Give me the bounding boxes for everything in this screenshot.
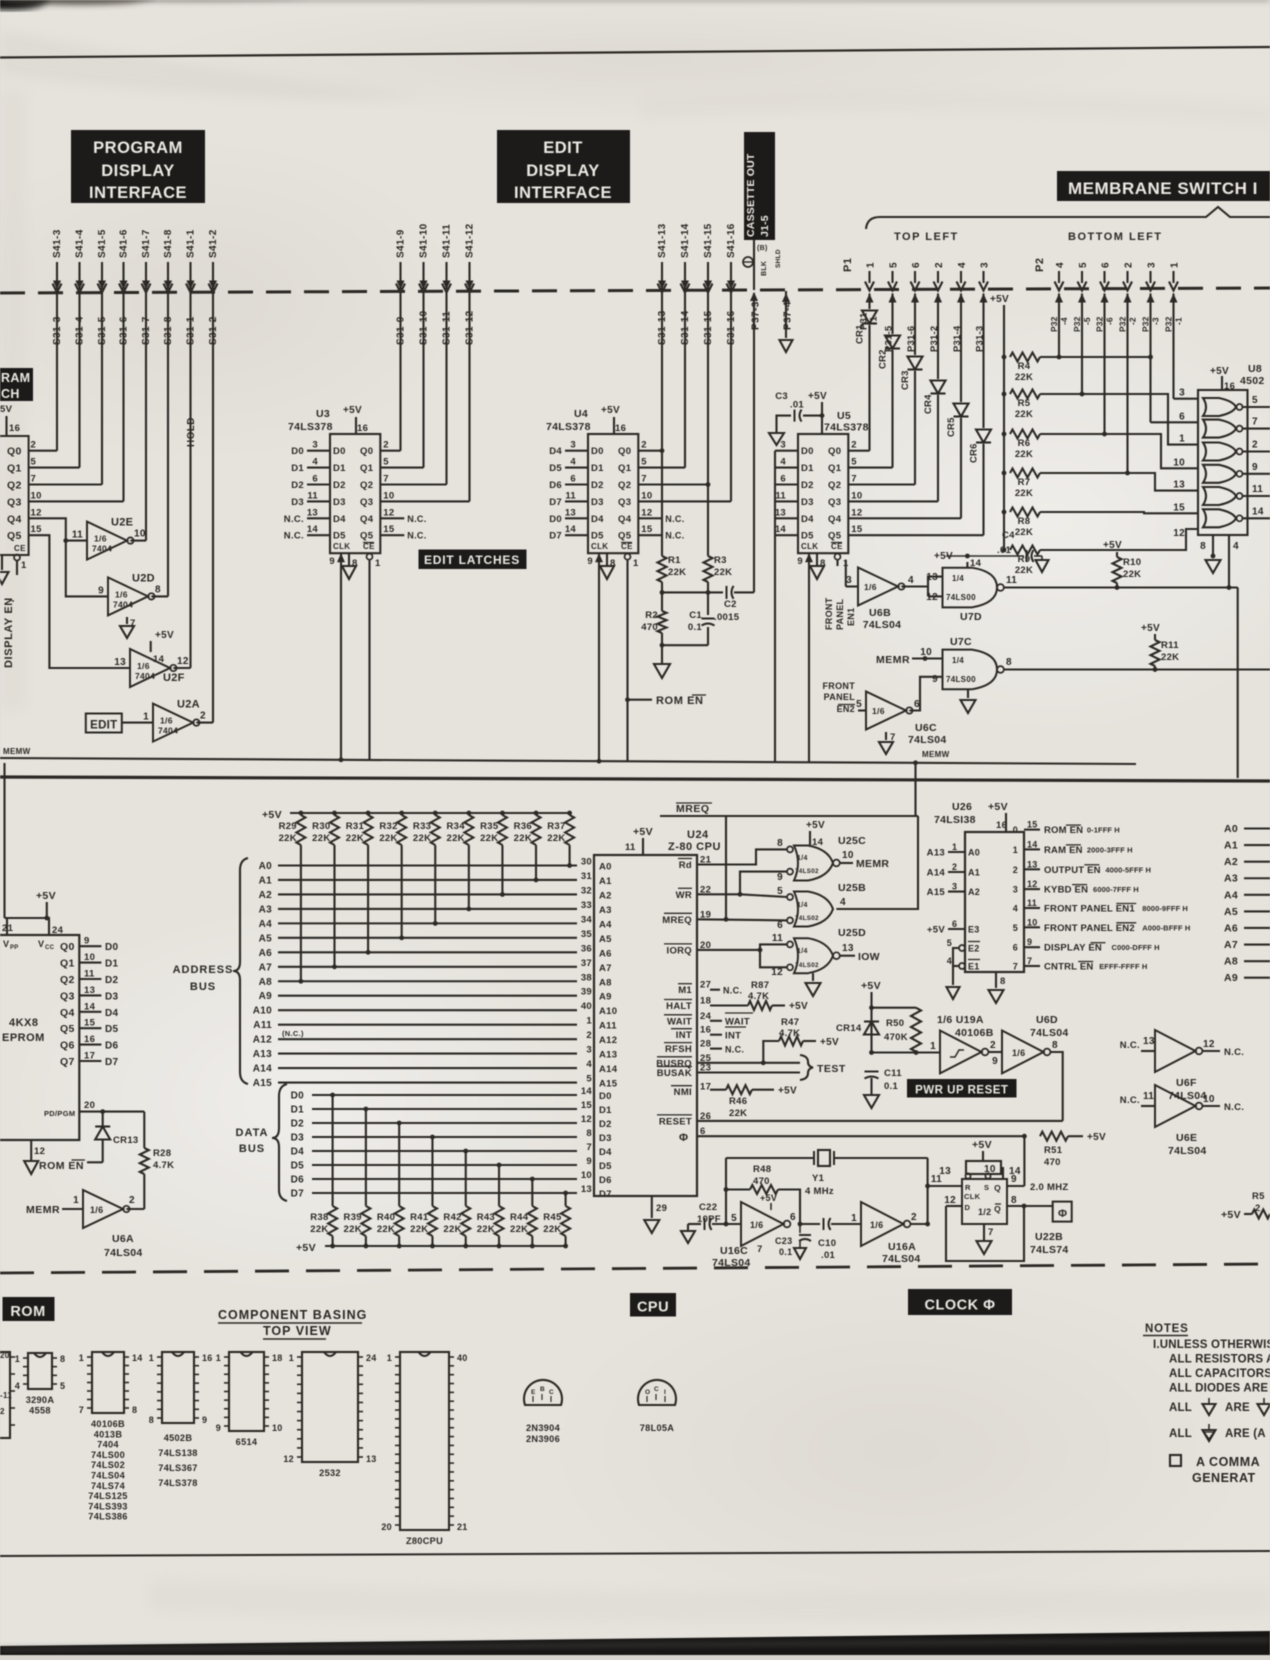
svg-text:7404: 7404	[92, 544, 112, 554]
resistor R8 22K	[1002, 510, 1007, 515]
svg-text:13: 13	[1143, 1036, 1155, 1047]
wire BUSRQ	[697, 1062, 800, 1064]
svg-text:8: 8	[60, 1354, 65, 1364]
svg-text:+5V: +5V	[1087, 1132, 1106, 1143]
svg-text:Q5: Q5	[618, 531, 632, 542]
svg-text:D5: D5	[801, 531, 814, 542]
svg-text:A7: A7	[259, 962, 273, 973]
svg-text:7: 7	[79, 1405, 84, 1415]
svg-text:12: 12	[1027, 879, 1038, 889]
svg-text:R40: R40	[377, 1212, 395, 1223]
svg-text:14: 14	[132, 1353, 143, 1363]
svg-text:5: 5	[856, 699, 862, 710]
svg-text:P32: P32	[1118, 316, 1128, 332]
pin D3 (11)	[775, 500, 798, 502]
svg-text:Y1: Y1	[812, 1173, 825, 1184]
svg-text:+5V: +5V	[820, 1037, 839, 1048]
svg-text:8: 8	[155, 584, 161, 595]
svg-text:22K: 22K	[413, 833, 431, 844]
node P32-4	[1055, 294, 1063, 303]
node P32-5	[1078, 294, 1086, 303]
svg-text:1: 1	[1170, 262, 1181, 268]
EDIT input box	[86, 714, 122, 733]
svg-text:U25B: U25B	[838, 882, 866, 894]
svg-text:1/6 U19A: 1/6 U19A	[937, 1014, 984, 1026]
svg-text:N.C.: N.C.	[725, 1045, 744, 1055]
svg-text:CNTRL EN: CNTRL EN	[1044, 962, 1093, 973]
svg-text:2: 2	[1252, 440, 1258, 451]
svg-text:22K: 22K	[312, 833, 330, 844]
svg-text:74LS04: 74LS04	[104, 1247, 143, 1259]
svg-text:7: 7	[1027, 956, 1032, 966]
resistor R1 22K	[660, 448, 665, 453]
svg-text:A COMMA: A COMMA	[1196, 1455, 1260, 1469]
svg-text:7: 7	[586, 1142, 592, 1153]
svg-text:D5: D5	[291, 1161, 305, 1172]
svg-text:4: 4	[957, 262, 968, 268]
pin D3 (11)	[307, 500, 330, 502]
svg-text:C2: C2	[724, 599, 737, 610]
svg-text:Q4: Q4	[60, 1007, 75, 1019]
svg-text:U4: U4	[574, 408, 588, 420]
capacitor C11 0.1	[865, 1071, 879, 1073]
pin D1 (4)	[307, 467, 330, 469]
resistor R28 4.7K	[140, 1148, 149, 1174]
svg-text:5: 5	[641, 457, 647, 468]
svg-text:22K: 22K	[668, 567, 686, 578]
svg-text:N.C.: N.C.	[407, 531, 426, 541]
svg-text:5: 5	[1078, 262, 1089, 268]
svg-text:N.C.: N.C.	[1224, 1102, 1244, 1113]
svg-text:.01: .01	[790, 400, 805, 411]
svg-text:A11: A11	[599, 1021, 617, 1032]
svg-text:+5V: +5V	[296, 1242, 316, 1254]
svg-text:Φ: Φ	[679, 1132, 688, 1144]
svg-text:8: 8	[1006, 657, 1012, 668]
wire R4 row to U8 pin6	[1040, 356, 1151, 358]
svg-text:13: 13	[1027, 859, 1038, 869]
resistor R3 22K	[706, 482, 711, 487]
svg-text:15: 15	[1173, 502, 1185, 513]
svg-text:15: 15	[84, 1018, 96, 1029]
svg-text:2: 2	[952, 862, 957, 872]
svg-text:74LS393: 74LS393	[88, 1501, 127, 1511]
svg-text:A8: A8	[259, 977, 273, 988]
svg-text:R11: R11	[1161, 640, 1179, 651]
svg-text:11: 11	[625, 842, 636, 853]
junction to U19A	[869, 1050, 874, 1055]
svg-text:2: 2	[851, 440, 857, 451]
data bus brace	[272, 1084, 287, 1201]
svg-text:COMPONENT BASING: COMPONENT BASING	[218, 1308, 367, 1322]
svg-text:B: B	[540, 1386, 545, 1393]
svg-text:74LS00: 74LS00	[946, 593, 976, 602]
svg-text:22K: 22K	[379, 833, 397, 844]
svg-text:BUS: BUS	[239, 1143, 265, 1155]
svg-text:OUTPUT EN: OUTPUT EN	[1044, 865, 1101, 876]
svg-text:22K: 22K	[1015, 449, 1033, 460]
svg-text:ALL: ALL	[1169, 1428, 1192, 1440]
svg-text:D7: D7	[549, 531, 562, 542]
svg-text:P32: P32	[1141, 316, 1151, 332]
svg-text:CLOCK Φ: CLOCK Φ	[925, 1298, 996, 1314]
svg-text:13: 13	[114, 657, 126, 668]
svg-text:U16C: U16C	[720, 1245, 748, 1257]
svg-text:11: 11	[1006, 575, 1017, 586]
svg-text:4: 4	[1013, 904, 1018, 914]
svg-text:11: 11	[775, 490, 786, 501]
svg-text:N.C.: N.C.	[723, 986, 742, 996]
U7C ground	[967, 689, 969, 698]
svg-text:N.C.: N.C.	[665, 514, 684, 524]
svg-text:R7: R7	[1018, 477, 1031, 488]
wire Q4 to U2E/U2D	[29, 518, 87, 540]
svg-text:D1: D1	[801, 463, 814, 474]
pin D2 (6)	[565, 483, 588, 485]
svg-text:ARE (A: ARE (A	[1225, 1428, 1266, 1440]
svg-text:74LS04: 74LS04	[712, 1257, 751, 1269]
svg-text:40: 40	[457, 1353, 468, 1363]
diode CR4	[937, 294, 939, 380]
pin D0 (3)	[565, 450, 588, 452]
gate U8 element 3	[1203, 443, 1236, 461]
svg-text:2: 2	[911, 1212, 917, 1223]
svg-text:U2A: U2A	[177, 699, 200, 711]
svg-text:12: 12	[283, 1454, 294, 1464]
svg-text:U22B: U22B	[1035, 1231, 1063, 1243]
svg-text:74LS378: 74LS378	[288, 421, 333, 433]
label box CPU	[630, 1293, 676, 1317]
svg-text:(N.C.): (N.C.)	[282, 1029, 304, 1038]
svg-text:74LS02: 74LS02	[795, 868, 819, 875]
svg-text:12: 12	[177, 656, 189, 667]
svg-text:A13: A13	[253, 1049, 272, 1060]
svg-text:1: 1	[851, 1213, 857, 1224]
svg-text:4: 4	[908, 575, 914, 586]
pin D4 (13)	[775, 517, 798, 519]
resistor R40 22K	[397, 1244, 402, 1249]
svg-text:A9: A9	[259, 991, 273, 1002]
gate U8 element 1	[1203, 398, 1236, 416]
svg-text:11: 11	[307, 490, 318, 501]
svg-text:D2: D2	[333, 480, 346, 491]
svg-text:16: 16	[357, 423, 368, 434]
svg-text:EDIT LATCHES: EDIT LATCHES	[424, 553, 520, 567]
svg-text:2N3906: 2N3906	[526, 1434, 560, 1444]
section divider thick line	[0, 777, 1270, 781]
wire CR5 to U5 output	[960, 418, 962, 518]
svg-text:74LS378: 74LS378	[546, 421, 591, 433]
svg-text:A5: A5	[1224, 906, 1238, 918]
svg-text:7404: 7404	[158, 726, 178, 736]
svg-text:Q5: Q5	[60, 1023, 75, 1035]
svg-text:13: 13	[1173, 480, 1185, 491]
pin E1 (4) U26	[959, 963, 965, 969]
svg-text:A15: A15	[599, 1079, 618, 1090]
svg-text:36: 36	[581, 943, 592, 954]
svg-text:1: 1	[21, 560, 27, 571]
EDIT LATCHES label box	[419, 550, 527, 570]
resistor R30 22K	[332, 811, 337, 816]
svg-text:Q4: Q4	[360, 514, 374, 525]
svg-text:10: 10	[851, 490, 862, 501]
svg-text:S41-11: S41-11	[442, 224, 453, 258]
pin D2 (6)	[307, 483, 330, 485]
svg-text:D5: D5	[333, 531, 346, 542]
node P37-3	[753, 240, 755, 290]
pin D4 (13)	[307, 517, 330, 519]
diode CR1	[868, 294, 870, 310]
wire R8 row to U8 pin15	[1040, 512, 1198, 513]
svg-text:14: 14	[84, 1001, 96, 1012]
resistor R9 22K	[1002, 548, 1007, 553]
svg-text:A3: A3	[259, 904, 273, 915]
svg-text:74LSI38: 74LSI38	[934, 814, 976, 826]
svg-text:S41-3: S41-3	[52, 229, 63, 258]
svg-text:HOLD: HOLD	[186, 417, 197, 447]
svg-text:D2: D2	[801, 480, 814, 491]
svg-text:470K: 470K	[884, 1032, 908, 1043]
svg-text:74LS74: 74LS74	[1030, 1244, 1069, 1256]
resistor R33 22K	[433, 811, 438, 816]
svg-text:I: I	[664, 1389, 666, 1396]
svg-text:Q3: Q3	[7, 496, 22, 508]
U1 output wires to S31 columns	[29, 450, 57, 452]
label box PROGRAM DISPLAY INTERFACE	[71, 130, 205, 203]
junction row with C2	[661, 582, 663, 611]
svg-text:BOTTOM LEFT: BOTTOM LEFT	[1068, 231, 1163, 243]
svg-text:14: 14	[970, 558, 982, 569]
svg-text:6: 6	[1101, 262, 1112, 268]
svg-text:D5: D5	[599, 1161, 612, 1172]
svg-text:11: 11	[565, 490, 576, 501]
svg-text:+5V: +5V	[155, 630, 174, 641]
svg-text:S41-16: S41-16	[726, 223, 737, 258]
svg-text:5: 5	[889, 262, 900, 268]
svg-text:E3: E3	[968, 925, 980, 935]
svg-text:24: 24	[700, 1011, 712, 1022]
svg-text:10: 10	[641, 490, 652, 501]
node P31-1	[866, 294, 874, 303]
wire MREQ to U25B input 6	[697, 919, 787, 920]
resistor R43 22K	[497, 1244, 502, 1249]
resistor R2 470	[658, 611, 667, 633]
svg-text:R41: R41	[410, 1212, 429, 1223]
svg-text:8: 8	[149, 1415, 154, 1425]
wire CR1 to U5 output	[868, 325, 870, 451]
svg-text:R43: R43	[477, 1212, 495, 1223]
svg-text:P32: P32	[1164, 316, 1174, 332]
svg-text:D0: D0	[801, 446, 814, 457]
svg-text:Q5: Q5	[7, 530, 22, 542]
package 18-pin 6514	[229, 1352, 264, 1431]
svg-text:D4: D4	[591, 514, 604, 525]
svg-text:4: 4	[947, 956, 952, 966]
svg-text:15: 15	[641, 524, 653, 535]
svg-text:R28: R28	[153, 1148, 171, 1159]
svg-text:16: 16	[9, 423, 20, 434]
svg-text:13: 13	[366, 1454, 377, 1464]
svg-text:D0: D0	[105, 942, 119, 953]
svg-text:74LS04: 74LS04	[1168, 1090, 1207, 1102]
svg-text:11: 11	[1027, 898, 1037, 908]
svg-text:4.7K: 4.7K	[153, 1160, 174, 1171]
svg-text:A3: A3	[1224, 873, 1238, 885]
svg-text:PANEL: PANEL	[835, 598, 845, 630]
svg-text:10: 10	[31, 490, 42, 501]
U7D pin12 wire from MEMR	[928, 595, 943, 597]
svg-text:GENERAT: GENERAT	[1192, 1471, 1256, 1485]
svg-text:Q5: Q5	[360, 531, 374, 542]
pin D1 (4)	[565, 467, 588, 469]
svg-text:DATA: DATA	[236, 1127, 269, 1139]
svg-text:74LS04: 74LS04	[1030, 1027, 1069, 1039]
svg-text:CH: CH	[1, 387, 20, 401]
svg-text:40106B: 40106B	[955, 1027, 994, 1039]
svg-text:+5V: +5V	[789, 1001, 808, 1012]
svg-text:A11: A11	[253, 1020, 272, 1031]
svg-text:14: 14	[565, 524, 577, 535]
svg-text:.01: .01	[997, 545, 1012, 556]
svg-text:10: 10	[84, 952, 95, 963]
svg-text:U7C: U7C	[950, 636, 972, 648]
wire RESET row	[697, 1120, 1063, 1122]
pin D5 (14)	[775, 534, 798, 536]
svg-text:EDIT: EDIT	[543, 139, 583, 157]
svg-text:7404: 7404	[97, 1440, 119, 1450]
svg-text:R47: R47	[781, 1017, 799, 1028]
svg-text:Q2: Q2	[360, 480, 373, 491]
svg-text:12: 12	[851, 507, 862, 518]
svg-text:CR1: CR1	[855, 324, 866, 344]
svg-text:22K: 22K	[1015, 488, 1033, 499]
svg-text:+5V: +5V	[806, 820, 825, 831]
svg-text:37: 37	[581, 958, 592, 969]
svg-text:D1: D1	[105, 959, 119, 970]
ground under R2	[661, 633, 663, 664]
wire Rd to U25C input 8	[697, 849, 787, 864]
svg-text:R4: R4	[1018, 361, 1031, 372]
svg-text:S41-1: S41-1	[186, 229, 197, 258]
pin D1 (4)	[775, 467, 798, 469]
svg-text:7: 7	[383, 474, 389, 485]
svg-text:29: 29	[656, 1203, 667, 1214]
svg-text:D5: D5	[105, 1024, 119, 1035]
inverter U2F 7404	[130, 649, 170, 687]
svg-text:13: 13	[307, 507, 318, 518]
wire U2E out to S31-7	[130, 540, 146, 542]
svg-text:16: 16	[84, 1034, 95, 1045]
svg-text:Q3: Q3	[360, 497, 373, 508]
svg-text:U7D: U7D	[960, 611, 982, 623]
svg-text:D1: D1	[333, 463, 346, 474]
svg-text:24: 24	[366, 1353, 377, 1363]
svg-text:2: 2	[641, 440, 647, 451]
svg-text:-5: -5	[1082, 317, 1092, 325]
resistor R34 22K	[466, 811, 471, 816]
svg-text:12: 12	[581, 1114, 592, 1125]
svg-text:A7: A7	[599, 963, 612, 974]
svg-text:8: 8	[777, 838, 783, 849]
svg-text:2N3904: 2N3904	[526, 1423, 561, 1433]
svg-text:CR6: CR6	[969, 443, 980, 463]
svg-text:CR2: CR2	[878, 349, 889, 369]
svg-text:INT: INT	[676, 1030, 692, 1041]
svg-text:17: 17	[84, 1051, 95, 1062]
svg-text:5: 5	[31, 457, 37, 468]
svg-text:PANEL: PANEL	[824, 692, 856, 702]
svg-text:14: 14	[1252, 506, 1264, 517]
gate U8 element 6	[1203, 509, 1236, 527]
svg-text:74LS378: 74LS378	[158, 1478, 197, 1488]
pin E2 (5) U26	[959, 945, 965, 951]
svg-text:N.C.: N.C.	[284, 531, 304, 542]
svg-text:ALL CAPACITORS: ALL CAPACITORS	[1169, 1368, 1270, 1380]
svg-text:TOP LEFT: TOP LEFT	[894, 231, 959, 243]
svg-text:A3: A3	[599, 905, 612, 916]
svg-text:C22: C22	[699, 1202, 717, 1213]
svg-text:I.UNLESS OTHERWIS: I.UNLESS OTHERWIS	[1153, 1339, 1270, 1351]
svg-text:4: 4	[1055, 262, 1066, 268]
label box PROGRAM SWITCH (cut)	[0, 368, 33, 401]
svg-text:74LS367: 74LS367	[158, 1463, 197, 1473]
svg-text:17: 17	[700, 1082, 711, 1093]
svg-text:FRONT PANEL EN2: FRONT PANEL EN2	[1044, 923, 1135, 934]
svg-text:A13: A13	[927, 848, 945, 859]
svg-text:D2: D2	[291, 1119, 305, 1130]
svg-text:A1: A1	[968, 868, 980, 878]
svg-text:WAIT: WAIT	[667, 1016, 692, 1027]
NAND U7C 74LS00	[943, 650, 998, 690]
flip-flop U22B 74LS74	[962, 1179, 1007, 1224]
svg-text:22K: 22K	[346, 833, 364, 844]
svg-text:1/4: 1/4	[797, 948, 808, 955]
pin D2 (6)	[775, 483, 798, 485]
svg-text:D7: D7	[549, 497, 562, 508]
svg-text:7: 7	[757, 1244, 763, 1255]
svg-text:74LS00: 74LS00	[946, 675, 976, 684]
svg-text:D0: D0	[291, 1091, 305, 1102]
svg-text:9: 9	[1252, 462, 1258, 473]
package 24-pin 2532	[302, 1352, 358, 1462]
svg-text:INTERFACE: INTERFACE	[514, 184, 612, 202]
svg-text:22K: 22K	[1161, 652, 1179, 663]
svg-text:PROGRAM: PROGRAM	[93, 139, 183, 157]
svg-text:+5V: +5V	[972, 1139, 992, 1151]
svg-text:R8: R8	[1018, 516, 1031, 527]
cassette plug symbol	[743, 257, 753, 267]
svg-text:Q2: Q2	[828, 480, 841, 491]
svg-text:9: 9	[98, 585, 104, 596]
svg-text:2: 2	[31, 440, 37, 451]
svg-text:A12: A12	[599, 1035, 617, 1046]
resistor R7 22K	[1002, 471, 1007, 476]
svg-text:74LS386: 74LS386	[88, 1512, 127, 1522]
svg-text:7404: 7404	[113, 599, 133, 609]
svg-text:A8: A8	[599, 977, 612, 988]
svg-text:1: 1	[952, 842, 957, 852]
svg-text:R30: R30	[312, 821, 330, 832]
svg-text:1: 1	[1013, 845, 1018, 855]
wire U6D out to RESET row	[1050, 1052, 1062, 1121]
svg-text:Q2: Q2	[618, 480, 631, 491]
svg-text:4 MHz: 4 MHz	[805, 1186, 834, 1197]
svg-text:S41-14: S41-14	[680, 223, 691, 258]
svg-text:D6: D6	[291, 1175, 305, 1186]
svg-text:U2E: U2E	[111, 517, 133, 529]
svg-text:78L05A: 78L05A	[640, 1423, 675, 1433]
node P31-3	[980, 294, 988, 303]
